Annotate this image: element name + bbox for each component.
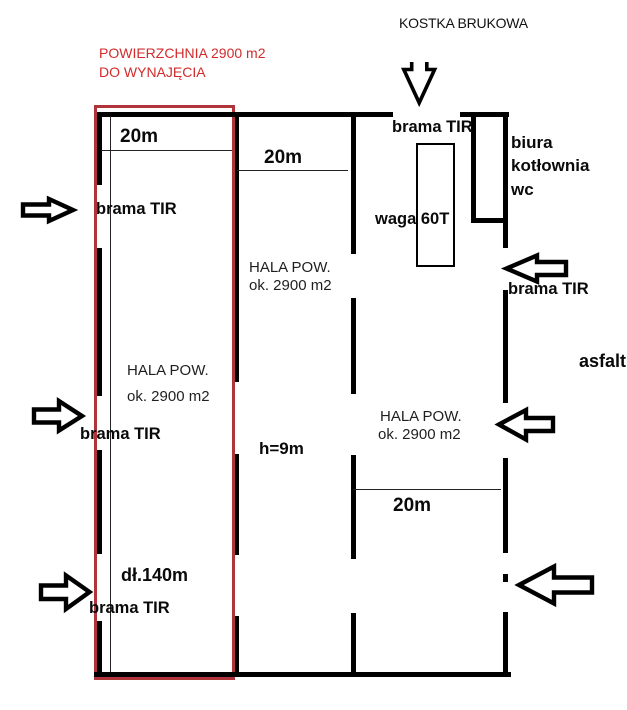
label hala 3 line 1: [380, 409, 462, 424]
right wall segment 4: [503, 612, 508, 676]
label biura: [511, 134, 553, 151]
label 20m middle: [264, 148, 302, 167]
label waga 60T: [375, 211, 449, 228]
label h=9m: [259, 440, 304, 457]
right wall segment 2: [503, 290, 508, 403]
office box bottom wall: [471, 218, 506, 223]
arrow left 2: [499, 410, 553, 440]
label hala 2 line 1: [249, 260, 331, 275]
label DO WYNAJECIA: [99, 65, 206, 79]
middle wall segment 4: [351, 613, 356, 674]
wall top-right segment: [460, 112, 509, 117]
label asfalt: [579, 352, 626, 370]
label hala 2 line 2: [249, 278, 332, 293]
label 20m bottom: [393, 496, 431, 515]
right wall segment 1: [503, 113, 508, 248]
left wall segment 2: [97, 248, 102, 396]
label 20m left: [120, 127, 158, 146]
label kotlownia: [511, 157, 589, 174]
inner wall (red-rect right) segment 3: [235, 616, 239, 672]
label KOSTKA BRUKOWA: [399, 16, 528, 30]
inner wall (red-rect right) segment 1: [235, 113, 239, 382]
label brama TIR left 1: [96, 201, 177, 218]
middle wall segment 1: [351, 112, 356, 254]
middle wall segment 3: [351, 455, 356, 559]
inner wall (red-rect right) segment 2: [235, 454, 239, 555]
thin inner line vertical: [110, 116, 111, 672]
arrow right 3: [41, 576, 90, 610]
label brama TIR left 2: [80, 426, 161, 443]
wall top-left segment: [97, 112, 393, 117]
label brama TIR left 3: [89, 600, 170, 617]
red rental area outline: [94, 105, 235, 680]
label brama TIR right: [508, 281, 589, 298]
right wall stub: [503, 574, 508, 582]
scale (waga) rectangle: [416, 143, 455, 267]
office box left wall: [471, 114, 476, 223]
arrow right 2: [34, 401, 82, 431]
arrow down (entry from kostka brukowa): [404, 62, 435, 103]
arrow right 1: [23, 199, 73, 221]
label wc: [511, 181, 534, 198]
arrow left 3: [519, 567, 592, 604]
middle wall segment 2: [351, 298, 356, 394]
dim line 20m middle: [237, 170, 348, 171]
right wall segment 3: [503, 458, 508, 553]
left wall segment 1: [97, 112, 102, 185]
wall bottom: [94, 672, 511, 677]
label brama TIR top: [392, 119, 473, 136]
label dl.140m: [121, 566, 188, 584]
left wall segment 4: [97, 621, 102, 676]
arrow left 1: [507, 256, 567, 282]
label hala 1 line 2: [127, 389, 210, 404]
dim line 20m bottom right: [353, 489, 501, 490]
dim line 20m left: [101, 150, 232, 151]
label POWIERZCHNIA 2900 m2: [99, 46, 266, 60]
label hala 1 line 1: [127, 363, 209, 378]
label hala 3 line 2: [378, 427, 461, 442]
left wall segment 3: [97, 450, 102, 554]
